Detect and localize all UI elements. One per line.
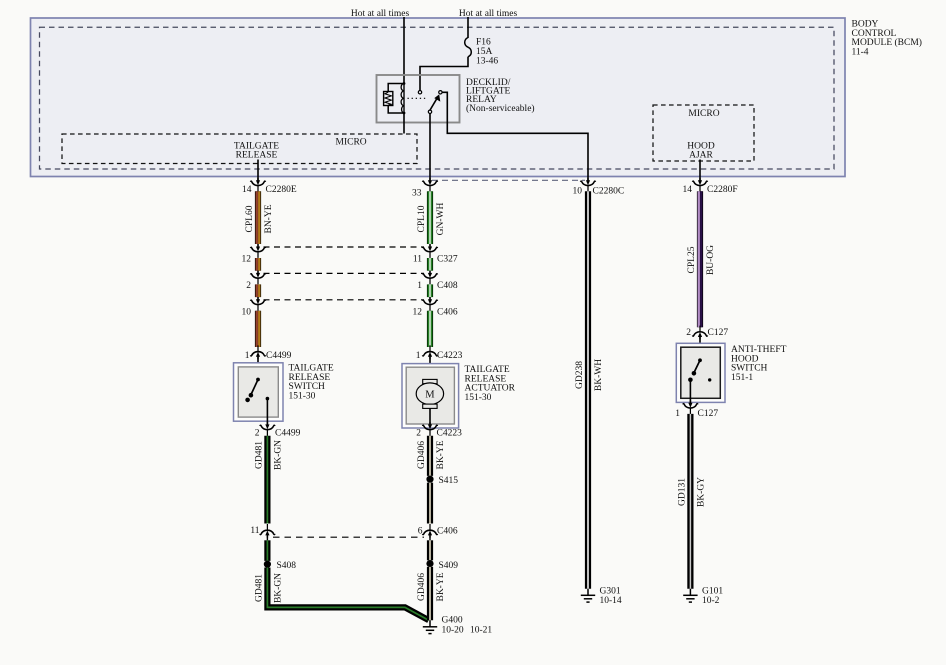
svg-text:BN-YE: BN-YE	[264, 204, 274, 233]
svg-text:2: 2	[686, 328, 691, 338]
relay switch blade	[430, 94, 440, 110]
switch S1 lower contact	[245, 398, 250, 403]
svg-text:BK-GN: BK-GN	[274, 573, 284, 603]
svg-text:BK-WH: BK-WH	[594, 359, 604, 391]
svg-text:CPL10: CPL10	[417, 205, 427, 232]
svg-text:C406: C406	[437, 527, 458, 537]
connector C327 pin 11	[429, 244, 431, 247]
svg-text:G400: G400	[442, 616, 463, 626]
wire: actuator output down	[429, 408, 431, 424]
svg-text:MICRO: MICRO	[688, 109, 719, 119]
relay switch output terminal	[439, 91, 442, 94]
wire BU-OG segment CPL25	[697, 191, 703, 327]
wire: relay pivot down to pin 33	[429, 114, 431, 181]
motor M1 body	[416, 383, 443, 405]
ground G301 label	[600, 587, 622, 607]
svg-text:33: 33	[412, 189, 422, 199]
svg-text:12: 12	[242, 255, 252, 265]
wire into hood switch	[699, 337, 701, 361]
svg-text:11: 11	[413, 255, 422, 265]
svg-text:10-2: 10-2	[702, 596, 720, 606]
relay coil resistor	[384, 92, 393, 106]
svg-text:C2280C: C2280C	[593, 187, 625, 197]
svg-text:10-20: 10-20	[442, 626, 464, 636]
dashed connector family line below BCM	[432, 179, 585, 181]
splice S409	[426, 560, 433, 567]
relay switch pivot terminal	[428, 110, 431, 113]
svg-text:11-4: 11-4	[852, 47, 869, 57]
connector C127 pin 2	[693, 326, 708, 340]
svg-text:1: 1	[245, 351, 250, 361]
MICRO processor dashed box 1	[62, 134, 417, 164]
svg-text:C4223: C4223	[437, 429, 463, 439]
wire BK-GN below C406	[266, 535, 268, 540]
connector C4223 pin 1	[423, 345, 438, 359]
actuator label	[465, 365, 516, 403]
svg-text:15A: 15A	[476, 47, 493, 57]
node: HOOD AJAR input	[687, 141, 715, 160]
svg-text:MICRO: MICRO	[336, 137, 367, 147]
svg-text:2: 2	[246, 281, 251, 291]
svg-text:GD406: GD406	[417, 441, 427, 469]
wire BN-YE segment 3	[255, 284, 261, 297]
connector C406 pin 12	[429, 297, 431, 299]
ground G301	[581, 589, 595, 602]
wire: fuse to relay switch terminal	[420, 57, 468, 91]
ground G101	[683, 589, 697, 602]
switch S1 output contact	[266, 397, 270, 401]
fuse F16	[465, 38, 472, 57]
connector C2280E pin 14	[251, 178, 266, 192]
svg-text:12: 12	[413, 308, 423, 318]
svg-text:BK-YE: BK-YE	[436, 440, 446, 469]
svg-text:1: 1	[416, 351, 421, 361]
relay U1: DECKLID/LIFTGATE RELAY box	[377, 75, 460, 123]
svg-text:10-21: 10-21	[470, 626, 492, 636]
wire BK-GN segment GD481	[264, 436, 270, 524]
connector pin 2 (col A)	[257, 271, 259, 273]
connector pin 12 (col A)	[257, 244, 259, 247]
hood switch label	[731, 345, 787, 383]
ground G400 label	[442, 616, 493, 636]
svg-text:C127: C127	[708, 328, 729, 338]
svg-text:C127: C127	[698, 409, 719, 419]
svg-text:1: 1	[417, 281, 422, 291]
ground G400	[423, 620, 437, 633]
svg-text:2: 2	[255, 429, 260, 439]
wire: switch output down	[266, 399, 268, 425]
switch S2 upper contact	[698, 358, 702, 362]
switch S2 lower contact	[688, 378, 693, 383]
wire into actuator	[429, 357, 431, 380]
svg-text:GD131: GD131	[677, 478, 687, 506]
wire GN-WH segment CPL10	[427, 191, 433, 244]
svg-text:CPL25: CPL25	[687, 246, 697, 273]
splice S415	[426, 476, 433, 483]
svg-text:GD481: GD481	[254, 574, 264, 602]
svg-text:BK-GY: BK-GY	[697, 477, 707, 507]
dashed link row 2	[264, 246, 425, 248]
node: TAILGATE RELEASE output	[234, 141, 279, 160]
svg-text:S409: S409	[439, 561, 459, 571]
svg-text:BU-OG: BU-OG	[706, 245, 716, 275]
connector C4499 pin 1	[251, 345, 266, 359]
svg-text:C2280E: C2280E	[266, 185, 297, 195]
wire GN-WH segment 4	[427, 311, 433, 347]
svg-text:AJAR: AJAR	[689, 151, 713, 161]
wire BK-YE below C406	[429, 535, 431, 540]
wire: hood switch output	[689, 380, 691, 403]
svg-text:151-30: 151-30	[289, 391, 316, 401]
connector C2280F pin 14	[693, 178, 708, 192]
svg-text:GN-WH: GN-WH	[436, 203, 446, 236]
switch S1 blade	[251, 380, 258, 396]
svg-text:S408: S408	[277, 561, 297, 571]
svg-text:C327: C327	[437, 255, 458, 265]
wire BK-GY GD131	[687, 414, 693, 589]
tailgate release switch label	[289, 364, 334, 402]
switch S2 NC contact	[708, 378, 711, 381]
svg-text:C4499: C4499	[275, 429, 301, 439]
relay label	[466, 78, 535, 114]
dashed link row 4	[264, 299, 425, 301]
motor M1 bottom brush	[423, 404, 437, 408]
wire BN-YE segment 2	[255, 258, 261, 271]
svg-text:GD238: GD238	[575, 361, 585, 389]
fuse F16 value label	[476, 38, 498, 67]
wire: tailgate release micro output	[257, 160, 259, 181]
svg-text:C4223: C4223	[437, 351, 463, 361]
BCM label	[852, 20, 922, 58]
wire: hot feed 2 to fuse F16	[467, 17, 469, 38]
motor M1 top brush	[423, 379, 437, 383]
svg-text:BK-YE: BK-YE	[436, 572, 446, 601]
wire GN-WH segment 3	[427, 284, 433, 297]
svg-text:151-30: 151-30	[465, 393, 492, 403]
svg-text:M: M	[425, 390, 435, 401]
wire: resistor parallel bottom	[388, 106, 404, 114]
MICRO processor dashed box 2	[653, 105, 754, 161]
ground G101 label	[702, 587, 723, 607]
connector C2280C pin 10	[581, 178, 596, 192]
switch S1 upper contact	[256, 378, 260, 382]
switch S1: TAILGATE RELEASE SWITCH box	[234, 363, 284, 421]
svg-text:(Non-serviceable): (Non-serviceable)	[466, 103, 535, 114]
wire BK-GN to ground run	[267, 568, 428, 621]
svg-text:1: 1	[675, 409, 680, 419]
svg-text:GD481: GD481	[254, 441, 264, 469]
wire: hood ajar micro input	[699, 160, 701, 181]
relay actuation dotted link	[408, 97, 428, 99]
relay coil L1	[401, 84, 404, 114]
svg-text:S415: S415	[439, 476, 459, 486]
dashed link C406	[273, 536, 424, 538]
connector C406 pin 11	[260, 524, 275, 538]
node: coil bottom junction	[403, 112, 406, 115]
svg-text:10: 10	[242, 308, 252, 318]
svg-text:C4499: C4499	[266, 351, 292, 361]
wire BK-YE segment 2	[427, 483, 433, 524]
connector C127 pin 1	[683, 401, 698, 415]
svg-text:2: 2	[416, 429, 421, 439]
wire into tailgate release switch	[257, 357, 259, 380]
svg-text:6: 6	[418, 527, 423, 537]
wire BK-WH GD238	[585, 191, 591, 589]
svg-text:10-14: 10-14	[600, 596, 622, 606]
relay terminal pin 30	[418, 91, 421, 94]
svg-text:11: 11	[250, 526, 259, 536]
wire BN-YE segment 4	[255, 311, 261, 347]
wire: coil to micro	[403, 113, 405, 134]
connector C406 pin 6	[423, 524, 438, 538]
svg-text:14: 14	[683, 185, 693, 195]
wire BK-YE to ground	[427, 567, 433, 620]
splice S408	[264, 561, 271, 568]
BCM inner dashed boundary	[40, 27, 835, 169]
connector C4223 pin 2	[423, 422, 438, 436]
wire BK-YE segment GD406	[427, 436, 433, 476]
wire GN-WH segment 2	[427, 258, 433, 271]
svg-text:151-1: 151-1	[731, 373, 753, 383]
dashed link row 3	[264, 272, 425, 274]
svg-text:G301: G301	[600, 587, 621, 597]
svg-text:BK-GN: BK-GN	[274, 440, 284, 470]
svg-text:14: 14	[242, 185, 252, 195]
BCM module box	[31, 18, 846, 177]
wire: relay output to C2280C drop	[442, 92, 588, 180]
svg-text:F16: F16	[476, 38, 491, 48]
connector pin 10 (col A)	[257, 297, 259, 299]
svg-text:C2280F: C2280F	[707, 185, 738, 195]
node: coil top junction	[403, 82, 406, 85]
svg-text:13-46: 13-46	[476, 57, 498, 67]
wire BN-YE segment CPL60	[255, 191, 261, 244]
svg-text:C408: C408	[437, 281, 458, 291]
connector C408 pin 1	[429, 271, 431, 273]
motor M1: TAILGATE RELEASE ACTUATOR box	[402, 364, 459, 428]
svg-text:G101: G101	[702, 587, 723, 597]
switch S2: ANTI-THEFT HOOD SWITCH box	[676, 343, 725, 402]
svg-text:10: 10	[573, 187, 583, 197]
connector C4499 pin 2	[260, 422, 275, 436]
svg-text:CPL60: CPL60	[245, 205, 255, 232]
switch S2 blade	[694, 360, 700, 373]
connector pin 33	[423, 178, 438, 192]
wire: hot feed 1 to relay coil	[403, 17, 405, 84]
svg-text:GD406: GD406	[417, 573, 427, 601]
svg-text:Hot at all times: Hot at all times	[351, 9, 410, 19]
svg-text:RELEASE: RELEASE	[236, 151, 278, 161]
svg-text:C406: C406	[437, 308, 458, 318]
wire: resistor parallel top	[388, 84, 404, 92]
